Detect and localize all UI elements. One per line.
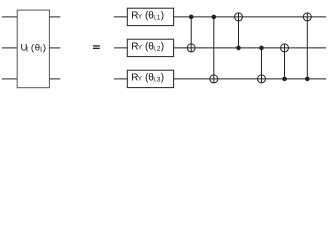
wire q2 (right circuit) xyxy=(114,47,326,49)
svg-text:l,3: l,3 xyxy=(153,76,160,83)
CNOT 3: control q2, target q1 xyxy=(235,13,243,50)
wire q1 (right circuit) xyxy=(114,16,326,18)
label RY(theta_l,2) xyxy=(131,41,164,52)
svg-text:Y: Y xyxy=(138,76,142,83)
svg-text:l,1: l,1 xyxy=(153,14,160,21)
svg-text:): ) xyxy=(161,10,164,21)
wire q3 right stub (right of U box) xyxy=(49,78,60,80)
wire q1 right stub (right of U box) xyxy=(49,16,60,18)
wire q3 (right circuit) xyxy=(114,78,326,80)
unitary box U_l xyxy=(17,10,49,88)
label U_l(theta_l) xyxy=(21,42,47,54)
CNOT 5: control q3, target q2 xyxy=(281,44,289,81)
CNOT 2: control q1, target q3 xyxy=(210,15,218,83)
gate box RY(theta_l,2) xyxy=(127,39,173,56)
CNOT 1: control q1, target q2 xyxy=(187,15,195,52)
wire q3 left stub (left of U box) xyxy=(2,78,17,80)
equals sign xyxy=(93,45,100,49)
gate box RY(theta_l,1) xyxy=(127,8,173,25)
svg-text:Y: Y xyxy=(138,45,142,52)
CNOT 6: control q3, target q1 xyxy=(303,13,311,81)
svg-text:): ) xyxy=(161,72,164,83)
svg-text:l,2: l,2 xyxy=(153,45,160,52)
label RY(theta_l,3) xyxy=(131,72,164,83)
CNOT 4: control q2, target q3 xyxy=(258,46,266,83)
label RY(theta_l,1) xyxy=(131,10,164,21)
svg-text:θ: θ xyxy=(35,42,40,53)
gate box RY(theta_l,3) xyxy=(127,70,173,87)
svg-text:): ) xyxy=(43,42,46,53)
wire q1 left stub (left of U box) xyxy=(2,16,17,18)
wire q2 left stub (left of U box) xyxy=(2,47,17,49)
svg-text:Y: Y xyxy=(138,14,142,21)
svg-text:): ) xyxy=(161,41,164,52)
wire q2 right stub (right of U box) xyxy=(49,47,60,49)
